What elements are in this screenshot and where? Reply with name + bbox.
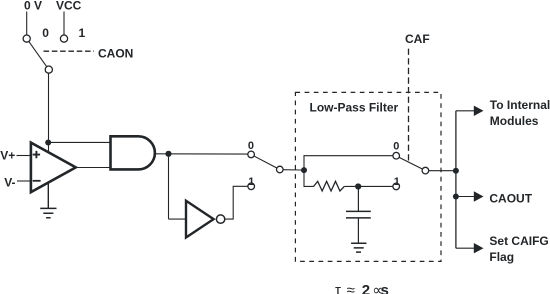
wire from VCC down to switch contact bbox=[63, 12, 65, 35]
wire node C down to resistor bbox=[304, 170, 314, 186]
comparator minus sign bbox=[33, 180, 41, 182]
wire to inverter input bbox=[169, 218, 187, 220]
svg-text:V+: V+ bbox=[0, 148, 15, 162]
svg-text:VCC: VCC bbox=[56, 0, 82, 12]
wire CAOUT branch bbox=[456, 196, 475, 198]
inverter U3 triangle bbox=[186, 201, 214, 238]
wire V+ input bbox=[17, 155, 32, 157]
ground symbol in filter bbox=[351, 243, 366, 252]
wire node B down to inverter bbox=[168, 154, 170, 219]
CAON control dashed line bbox=[44, 50, 95, 52]
comparator plus sign bbox=[33, 151, 40, 158]
svg-text:Flag: Flag bbox=[489, 250, 514, 264]
comparator U1 triangle bbox=[31, 143, 76, 193]
switch S3 pole circle bbox=[422, 167, 429, 174]
AND gate U2 bbox=[111, 136, 155, 169]
wire to internal modules branch bbox=[456, 110, 475, 112]
wire S3 pole to output bus bbox=[429, 170, 456, 172]
wire from switch pole down to comparator bbox=[48, 73, 50, 152]
svg-text:0 V: 0 V bbox=[24, 0, 42, 12]
svg-text:1: 1 bbox=[394, 176, 400, 188]
switch S3 contact 1 circle bbox=[393, 183, 400, 190]
wire capacitor to ground bbox=[357, 218, 359, 243]
switch S2 contact 1 circle bbox=[248, 183, 255, 190]
junction dot node A bbox=[45, 140, 51, 146]
wire S2 pole into filter box bbox=[283, 169, 301, 171]
switch CAON pole circle bbox=[45, 66, 52, 73]
inverter U3 bubble bbox=[216, 215, 224, 223]
wire node A to AND gate top input bbox=[48, 141, 111, 143]
switch S2 arm bbox=[254, 156, 277, 168]
svg-text:CAOUT: CAOUT bbox=[489, 192, 532, 206]
switch CAON arm bbox=[29, 42, 47, 67]
wire comparator to ground bbox=[47, 183, 49, 208]
svg-text:τ≈2∝s: τ≈2∝s bbox=[335, 282, 389, 294]
switch CAON contact 0 circle bbox=[23, 35, 30, 42]
low-pass filter dashed box bbox=[295, 92, 441, 261]
wire set CAIFG branch bbox=[456, 247, 475, 249]
CAF control dashed line bbox=[408, 49, 410, 162]
junction dot node B bbox=[165, 151, 171, 157]
svg-text:0: 0 bbox=[248, 140, 254, 152]
svg-text:1: 1 bbox=[79, 26, 86, 40]
arrow CAOUT bbox=[474, 191, 484, 201]
svg-text:1: 1 bbox=[248, 176, 254, 188]
wire from 0 V down to switch contact bbox=[26, 12, 28, 35]
junction dot CAOUT branch bbox=[453, 194, 459, 200]
switch S3 arm bbox=[399, 157, 423, 169]
svg-text:Set CAIFG: Set CAIFG bbox=[489, 234, 548, 248]
output bus vertical wire bbox=[455, 111, 457, 248]
wire resistor to filtered contact bbox=[344, 185, 393, 187]
switch S2 pole circle bbox=[277, 166, 284, 173]
junction dot node C bbox=[301, 167, 307, 173]
switch S3 contact 0 circle bbox=[393, 152, 400, 159]
wire AND output bbox=[155, 153, 248, 155]
wire node C up and right to bypass contact bbox=[304, 156, 393, 170]
svg-text:V-: V- bbox=[4, 175, 15, 189]
svg-text:0: 0 bbox=[393, 140, 399, 152]
switch CAON contact 1 circle bbox=[60, 35, 67, 42]
capacitor C1 top plate bbox=[346, 210, 371, 212]
svg-text:CAON: CAON bbox=[98, 47, 133, 61]
svg-text:To Internal: To Internal bbox=[490, 98, 550, 112]
capacitor C1 bottom plate bbox=[346, 217, 371, 219]
ground symbol under comparator bbox=[40, 208, 56, 217]
wire inverter output bbox=[225, 186, 248, 219]
wire node D down to capacitor bbox=[357, 189, 359, 211]
resistor R1 bbox=[314, 181, 345, 191]
arrow to internal modules bbox=[474, 106, 484, 116]
junction dot node D bbox=[355, 183, 361, 189]
svg-text:CAF: CAF bbox=[405, 32, 430, 46]
switch S2 contact 0 circle bbox=[248, 151, 255, 158]
junction dot bus and filter output bbox=[453, 168, 459, 174]
arrow set CAIFG bbox=[474, 243, 484, 253]
wire comparator output to AND gate bottom input bbox=[74, 167, 111, 169]
svg-text:Modules: Modules bbox=[490, 114, 539, 128]
svg-text:0: 0 bbox=[42, 26, 49, 40]
svg-text:Low-Pass Filter: Low-Pass Filter bbox=[310, 101, 399, 115]
wire V- input bbox=[17, 180, 31, 182]
